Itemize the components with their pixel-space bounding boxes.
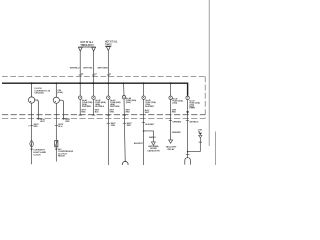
CB2 right leg pin label bbox=[65, 119, 70, 123]
svg-text:GRN: GRN bbox=[111, 125, 116, 127]
arrow A2 (down triangle) bbox=[92, 47, 96, 51]
connector arrow (open triangle) F6 bbox=[169, 140, 173, 143]
svg-text:WHT/BLK: WHT/BLK bbox=[95, 106, 104, 108]
pin tick wire A1 bbox=[79, 74, 82, 76]
wire F3 color label bbox=[110, 110, 115, 114]
wire F4 color label bbox=[126, 110, 131, 114]
wire F3 connector label bbox=[111, 123, 116, 127]
arrow A1 label bbox=[80, 41, 94, 47]
junction dot F4 bottom bbox=[125, 161, 126, 162]
svg-text:GRN: GRN bbox=[110, 112, 115, 114]
wire F2 end T-bar bbox=[92, 114, 96, 116]
fuse F5 bbox=[142, 96, 145, 99]
CB1 destination label bbox=[33, 150, 46, 157]
wire F3 pin tick lower bbox=[107, 122, 111, 124]
fuse F4 label bbox=[126, 97, 137, 104]
fuse F3 label bbox=[110, 99, 121, 108]
bus junction node 4 bbox=[93, 82, 95, 84]
svg-text:RED: RED bbox=[34, 126, 39, 128]
svg-text:RELAY: RELAY bbox=[58, 155, 66, 158]
CB1 output wire bbox=[31, 103, 33, 164]
connector C741 T-bar bbox=[199, 141, 202, 143]
F6 destination label bbox=[166, 146, 177, 151]
branch wire F7 to connector C bbox=[188, 151, 201, 153]
connector arrow (open triangle) radio bbox=[151, 142, 155, 145]
wire F5 down bbox=[143, 83, 145, 165]
svg-text:RED: RED bbox=[172, 112, 177, 114]
wire F1 to connector bbox=[79, 99, 81, 115]
junction node F7 branch bbox=[187, 151, 189, 153]
arrow A1/A2 top bar bbox=[79, 46, 96, 48]
fuse box dashed bottom edge (lower) bbox=[2, 117, 205, 119]
fuse F1 label bbox=[82, 99, 93, 108]
svg-text:CAPACITOR: CAPACITOR bbox=[147, 149, 160, 152]
wire F5 pin tick bbox=[142, 121, 145, 123]
wire F1 color label bbox=[81, 110, 86, 114]
svg-text:RED: RED bbox=[127, 125, 132, 127]
fuse box dashed top edge bbox=[2, 75, 205, 77]
wire from A2 to bus bbox=[93, 51, 95, 96]
svg-text:TIMES: TIMES bbox=[105, 44, 112, 46]
circuit breaker CB1 bbox=[29, 83, 39, 119]
svg-text:11: 11 bbox=[109, 74, 112, 76]
arrow A3 top bar bbox=[105, 45, 111, 47]
fuse element F8 (oval) bbox=[30, 141, 33, 147]
CB2 output wire bbox=[55, 103, 57, 161]
pin tick wire A3 bbox=[107, 74, 110, 76]
svg-text:WHT: WHT bbox=[40, 121, 45, 123]
wire F1 end T-bar bbox=[78, 114, 82, 116]
pin tick wire A2 bbox=[92, 74, 95, 76]
radio branch destination label bbox=[147, 145, 160, 152]
wire F3 pin tick upper bbox=[107, 114, 111, 116]
svg-text:RADIO: RADIO bbox=[149, 136, 156, 139]
svg-text:WHT/BLU: WHT/BLU bbox=[190, 122, 199, 124]
svg-text:12: 12 bbox=[94, 74, 97, 76]
svg-text:RELAY: RELAY bbox=[168, 148, 176, 151]
circuit breaker CB1 label bbox=[34, 88, 51, 95]
svg-text:RED: RED bbox=[126, 112, 131, 114]
bus bar bbox=[2, 83, 188, 96]
fuse F7 bbox=[186, 96, 189, 99]
svg-text:GRN/RED: GRN/RED bbox=[172, 121, 181, 123]
fuse F6 bbox=[169, 96, 172, 99]
svg-text:BLK/WHT: BLK/WHT bbox=[134, 143, 144, 145]
svg-text:WHT/BLU: WHT/BLU bbox=[70, 67, 80, 69]
fuse F3 bbox=[107, 96, 110, 99]
bus junction node 3 bbox=[79, 82, 81, 84]
CB1 wire connector tick bbox=[30, 124, 33, 126]
svg-text:C/B (20A): C/B (20A) bbox=[34, 92, 44, 95]
bus junction node 6 bbox=[123, 82, 125, 84]
svg-text:BLK/WHT: BLK/WHT bbox=[145, 124, 155, 126]
svg-text:(10A): (10A) bbox=[172, 102, 177, 105]
bus junction node 1 bbox=[31, 82, 33, 84]
page border line right bottom bbox=[215, 132, 217, 166]
arrow A3 label bbox=[105, 41, 118, 47]
svg-text:14: 14 bbox=[81, 73, 84, 76]
wire F6 pin tick bbox=[169, 119, 172, 121]
CB2 wire connector tick bbox=[55, 124, 58, 126]
wire from A3 to bus bbox=[107, 51, 109, 96]
svg-text:RED: RED bbox=[81, 112, 86, 114]
svg-text:WHT/RED: WHT/RED bbox=[82, 106, 92, 108]
svg-text:HOT AT ALL: HOT AT ALL bbox=[81, 41, 94, 44]
svg-text:GRN/RED: GRN/RED bbox=[172, 132, 181, 134]
fuse F4 bbox=[122, 96, 125, 99]
terminal arrow on wire F7 bbox=[186, 111, 189, 114]
CB1 right leg pin tick bbox=[37, 118, 40, 120]
CB2 destination label bbox=[58, 148, 74, 158]
svg-text:WHT/YEL: WHT/YEL bbox=[83, 67, 93, 69]
connector C741 wire bbox=[199, 138, 201, 152]
wire bus to F4 bbox=[123, 83, 125, 95]
bus junction node 2 bbox=[55, 82, 57, 84]
svg-text:TIMES (BAT): TIMES (BAT) bbox=[80, 44, 93, 47]
T-bar on wire F7 bbox=[186, 153, 190, 155]
fuse F2 bbox=[92, 96, 95, 99]
arrow A1 (down triangle) bbox=[78, 47, 82, 51]
svg-text:BLK: BLK bbox=[95, 112, 100, 114]
wire F2 to connector bbox=[93, 99, 95, 115]
wire F4 down bbox=[124, 99, 125, 161]
circuit breaker CB2 bbox=[53, 83, 63, 119]
wire F3 down bbox=[107, 99, 109, 165]
wire F4 pin tick lower bbox=[123, 122, 127, 124]
terminal arrow on CB2 wire bbox=[55, 149, 58, 151]
svg-text:CLOCK: CLOCK bbox=[33, 154, 41, 156]
CB2 right leg pin tick bbox=[62, 118, 65, 120]
svg-text:BLK/WHT: BLK/WHT bbox=[145, 106, 155, 108]
branch wire F5 to radio connector bbox=[144, 131, 154, 142]
circuit breaker CB2 label bbox=[57, 90, 63, 94]
wire F2 color label bbox=[95, 110, 100, 114]
svg-text:WHT/GRN: WHT/GRN bbox=[110, 106, 120, 108]
bus junction node 5 bbox=[107, 82, 109, 84]
terminal arrow on CB1 wire bbox=[30, 149, 33, 151]
svg-text:1 WHT: 1 WHT bbox=[189, 108, 196, 110]
wire F5 color label bbox=[145, 110, 150, 114]
connector C741 female terminal (open triangle) bbox=[199, 135, 202, 137]
connector C741 label bbox=[198, 128, 203, 133]
CB1 wire connector label bbox=[34, 124, 39, 128]
bus junction node 7 bbox=[143, 82, 145, 84]
wire F7 pin tick bbox=[186, 120, 189, 122]
wire F4 pin tick upper bbox=[122, 114, 126, 116]
fuse F6 label bbox=[172, 98, 183, 105]
fuse box dashed right edge bbox=[204, 76, 206, 118]
connector C741 male terminal (filled triangle) bbox=[199, 133, 202, 135]
wire from A1 to bus bbox=[79, 51, 81, 96]
socket cup at bottom of wire F7 bbox=[185, 158, 191, 165]
arrow A3 (down triangle) bbox=[106, 47, 110, 51]
svg-text:RED: RED bbox=[65, 121, 70, 123]
wire F6 down bbox=[170, 83, 172, 140]
svg-text:WHT: WHT bbox=[145, 112, 150, 114]
fuse F2 label bbox=[95, 99, 106, 108]
page border line right top bbox=[208, 0, 210, 146]
fuse box dashed bottom edge (upper) bbox=[2, 114, 205, 116]
component circle at bottom of F4 wire bbox=[122, 161, 128, 167]
fuse F7 label bbox=[189, 99, 200, 108]
svg-text:(30A): (30A) bbox=[57, 91, 63, 94]
svg-text:(20A): (20A) bbox=[126, 101, 131, 104]
CB1 right leg pin label bbox=[40, 119, 45, 123]
CB2 wire connector label bbox=[58, 124, 63, 128]
fuse element F9 (box with diagonal) bbox=[55, 141, 58, 147]
svg-text:WHT/GRN: WHT/GRN bbox=[97, 67, 108, 69]
wire F4 connector label bbox=[127, 123, 132, 127]
svg-text:HOT AT ALL: HOT AT ALL bbox=[105, 41, 118, 44]
junction node on wire F5 bbox=[143, 130, 145, 132]
bus junction node 8 bbox=[170, 82, 172, 84]
svg-text:BLU: BLU bbox=[58, 126, 63, 128]
fuse F1 bbox=[79, 96, 82, 99]
wire F6 color label bbox=[172, 110, 177, 114]
wire F7 down bbox=[187, 100, 189, 158]
fuse F5 label bbox=[145, 99, 156, 108]
